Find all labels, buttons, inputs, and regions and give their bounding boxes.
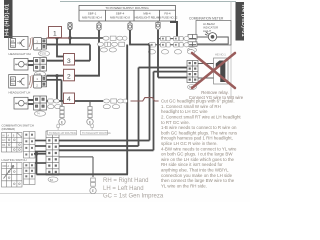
connector grid RH high [34,58,47,72]
svg-text:4: 4 [67,96,71,103]
wire LH lo top pin [47,75,64,77]
wire: RH lo to stub A [47,44,91,46]
annotation box 4 [64,93,75,104]
wire LH high beam out [47,100,104,102]
wire LH lo second pin [47,79,62,81]
svg-text:HID: HID [11,45,15,47]
cut slash RH [29,37,33,50]
label bar H4(HID)-01 left [4,0,13,38]
page top border [60,1,236,3]
relay feed y77.5 [158,77,187,79]
combination meter box [196,21,231,46]
svg-text:1-B wire needs to connect to R: 1-B wire needs to connect to R wire on [161,125,237,130]
svg-text:TO BACK-UP ROUTING: TO BACK-UP ROUTING [49,132,76,135]
ovals row below [148,50,194,54]
bus y174 [36,173,128,175]
dimmer switch table [2,133,23,153]
E-chain bottom (x93) [90,178,96,194]
legend text [103,178,164,200]
connector chain top middle (below stub B) rows [98,36,128,52]
ref oval B5 [188,85,197,90]
wire V138 [138,68,140,147]
chain chips on LH high wire [48,99,61,109]
wire: stub B down [98,30,100,77]
wire meter supply row [158,38,196,40]
wire: stub C down [130,30,150,45]
svg-text:then connect the large BW wire: then connect the large BW wire to the [161,178,235,183]
connector grid LH high [34,96,47,110]
wire: RH high to box3 [47,60,64,62]
page footer line [0,193,104,195]
svg-text:COMBINATION METER: COMBINATION METER [189,17,224,21]
connector grid LH low [34,75,47,88]
annotation box 1 [49,27,62,38]
page right border [230,2,232,97]
svg-text:LO: LO [11,40,14,43]
ref oval F36 [35,71,46,76]
svg-text:(DIMMER): (DIMMER) [2,127,16,131]
svg-text:H4 (HID)-01: H4 (HID)-01 [240,5,246,37]
annotation box 3 [64,54,75,66]
relay feed y71.6 [154,71,188,73]
right connector rows (to meter) [149,36,189,47]
indicator lamp [205,32,217,42]
wire box3 out [75,60,91,62]
ref oval B4 [48,177,58,182]
meter pin boxes [188,35,197,47]
wire box2 out [75,75,100,77]
fuse stub connector A (x70) [68,23,72,30]
svg-text:HE NO.1: HE NO.1 [215,53,226,57]
svg-text:anything else. That into the W: anything else. That into the WB/YL [161,168,229,173]
svg-text:A: A [15,102,17,106]
svg-text:connection you make on the LH: connection you make on the LH side [161,173,233,178]
svg-text:LIGHT: LIGHT [203,29,212,33]
fuse stub connector B (x99) [97,21,101,30]
headlight RH high box [14,59,28,71]
wire: drop to box3 [89,45,91,61]
wire V15 down [35,154,37,175]
wire y153.8 with junction [34,153,46,155]
svg-text:LO: LO [2,139,5,142]
wire cell4 corner [170,22,177,38]
bus y157 to E [59,156,93,158]
svg-text:3: 3 [67,58,71,65]
wire: long vertical to bottom bus [126,45,128,175]
ref oval F35 [39,51,50,56]
svg-text:LO: LO [11,78,14,81]
wire: annotation maroon from box1 [47,37,71,39]
relay feed y67.5 [139,67,188,69]
relay wires to body [198,63,214,65]
meter wires [196,37,228,44]
wire V149 [149,45,151,141]
svg-text:HID: HID [11,84,15,86]
thick stubs LH high [28,99,34,101]
svg-text:B4: B4 [50,178,54,182]
svg-text:through harness pad 1 RH headl: through harness pad 1 RH headlight, [161,136,233,141]
wire meter return row [150,44,197,46]
E-chain mid (x90) [87,101,93,125]
wire: RH splice drop [57,38,64,57]
svg-text:4-BW wire needs to connect to: 4-BW wire needs to connect to YL wire [161,146,237,151]
annotation box 2 [64,69,75,81]
fuse panel labels [82,6,178,20]
svg-text:M/B FUSE NO.8: M/B FUSE NO.8 [110,16,130,20]
TO routing tag stubs [57,124,94,130]
dimmer pin column [24,132,36,159]
wire LH splice drop 1 [56,76,58,101]
svg-text:LH = Left Hand: LH = Left Hand [103,186,144,192]
svg-text:both GC headlight plugs. The w: both GC headlight plugs. The wire runs [161,130,238,135]
wire LH splice drop 2 [61,80,63,101]
headlight LH low box [9,75,28,89]
svg-text:HEADLIGHT RELAY: HEADLIGHT RELAY [135,16,160,20]
junction dot splice RH [55,36,58,39]
svg-text:SBF-1: SBF-1 [88,11,97,15]
svg-text:F135: F135 [40,52,46,56]
svg-text:headlight to LH GC wire: headlight to LH GC wire [161,109,208,114]
headlight RH low box [9,37,28,50]
wire V153 [153,72,155,151]
connector chain on box4 wire [103,99,127,109]
svg-text:F8-4: F8-4 [164,11,171,15]
headlight LH high box [14,97,28,109]
bus y150 [59,149,154,151]
svg-text:1. Connect small W wire of RH: 1. Connect small W wire of RH [161,104,221,109]
svg-text:MB-4: MB-4 [143,11,150,15]
hi-beam indicator text [203,22,218,33]
instruction paragraph [161,99,241,189]
svg-text:2. Connect small RT wire at LH: 2. Connect small RT wire at LH headlight [161,115,241,120]
svg-text:PA: PA [2,144,5,147]
wire cell4 drop to meter row [176,37,178,39]
wire: stub D down to relay feed [157,30,159,78]
instruction text: remove relay [189,90,244,100]
svg-text:splice LH GC R wire in there.: splice LH GC R wire in there. [161,141,218,146]
svg-text:HI: HI [2,134,5,137]
label bar H4(HID)-01 right [236,2,247,41]
wire: stub A down [69,30,71,45]
svg-text:I/B FUSE NO.12: I/B FUSE NO.12 [158,16,178,20]
lighting pin column [24,163,36,185]
svg-text:2: 2 [67,74,71,81]
relay pin grid [187,61,198,83]
ref oval i16 [188,48,197,53]
TO routing tags [48,130,108,135]
wire row y146 [59,145,139,147]
svg-text:A: A [15,63,17,67]
svg-text:TO POWER SUPPLY ROUTING: TO POWER SUPPLY ROUTING [105,6,149,10]
fuse stub connector D (x158) [156,21,160,30]
svg-text:Cut GC headlight plugs with 6": Cut GC headlight plugs with 6" pigtail. [161,99,235,104]
svg-text:SBF-4: SBF-4 [116,11,125,15]
svg-text:GC = 1st Gen Impreza: GC = 1st Gen Impreza [103,194,164,200]
svg-text:YL wire on the RH side.: YL wire on the RH side. [161,183,207,188]
red X remove relay [192,53,235,88]
relay connector body [214,58,229,84]
svg-text:1: 1 [53,31,57,38]
maroon hop annotation [131,98,159,101]
fuse stub connector C (x130) [128,21,132,30]
switch connector stack [46,131,59,175]
svg-text:HEADLIGHT LH: HEADLIGHT LH [9,91,31,95]
svg-text:H4 (HID)-01: H4 (HID)-01 [5,4,11,36]
svg-text:B: B [26,102,28,106]
svg-text:RH = Right Hand: RH = Right Hand [103,178,149,184]
E-chain left (x62) [59,101,65,125]
svg-text:HEADLIGHT RH: HEADLIGHT RH [9,52,31,56]
svg-text:wire on the LH side which goes: wire on the LH side which goes to the [161,157,235,162]
junction dot [68,36,71,39]
cut slash LH [29,75,33,88]
svg-text:B: B [26,63,28,67]
wire row y140.5 [59,140,150,142]
svg-text:LIGHTING SWITCH: LIGHTING SWITCH [2,158,27,162]
svg-text:M/B FUSE NO.4: M/B FUSE NO.4 [82,16,102,20]
svg-text:TO TAILLIGHT ROUTING: TO TAILLIGHT ROUTING [82,132,111,135]
svg-text:RH side since it isn't needed: RH side since it isn't needed for [161,162,223,167]
svg-text:on both GC plugs. I cut the la: on both GC plugs. I cut the large BW [161,152,233,157]
wires table to stack [35,141,46,164]
wire: black y38 continuation [70,37,103,39]
svg-text:to RT GC wire.: to RT GC wire. [161,120,190,125]
connector grid RH low [34,38,47,51]
ref oval T4 [35,111,46,116]
fuse panel TO POWER SUPPLY ROUTING [79,6,176,22]
thick stubs RH high [28,60,34,62]
